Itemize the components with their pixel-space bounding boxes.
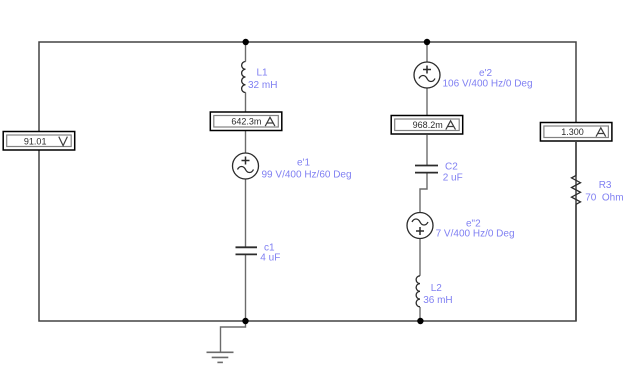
svg-text:e'2: e'2 [479, 68, 492, 79]
svg-text:C2: C2 [445, 161, 458, 172]
svg-text:642.3m: 642.3m [231, 116, 261, 126]
svg-text:R3: R3 [599, 180, 612, 191]
svg-text:106 V/400 Hz/0 Deg: 106 V/400 Hz/0 Deg [443, 78, 533, 89]
svg-text:e'1: e'1 [297, 158, 310, 169]
svg-text:968.2m: 968.2m [413, 120, 443, 130]
svg-text:91.01: 91.01 [24, 136, 47, 146]
svg-text:36 mH: 36 mH [423, 295, 452, 306]
svg-text:L1: L1 [257, 68, 269, 79]
svg-text:4 uF: 4 uF [260, 253, 280, 264]
svg-text:1.300: 1.300 [561, 127, 584, 137]
svg-text:70 Ohm: 70 Ohm [585, 192, 623, 203]
svg-text:L2: L2 [431, 283, 443, 294]
svg-text:32 mH: 32 mH [248, 80, 277, 91]
svg-text:7 V/400 Hz/0 Deg: 7 V/400 Hz/0 Deg [436, 228, 515, 239]
svg-text:2 uF: 2 uF [443, 173, 463, 184]
svg-text:99 V/400 Hz/60 Deg: 99 V/400 Hz/60 Deg [262, 169, 352, 180]
